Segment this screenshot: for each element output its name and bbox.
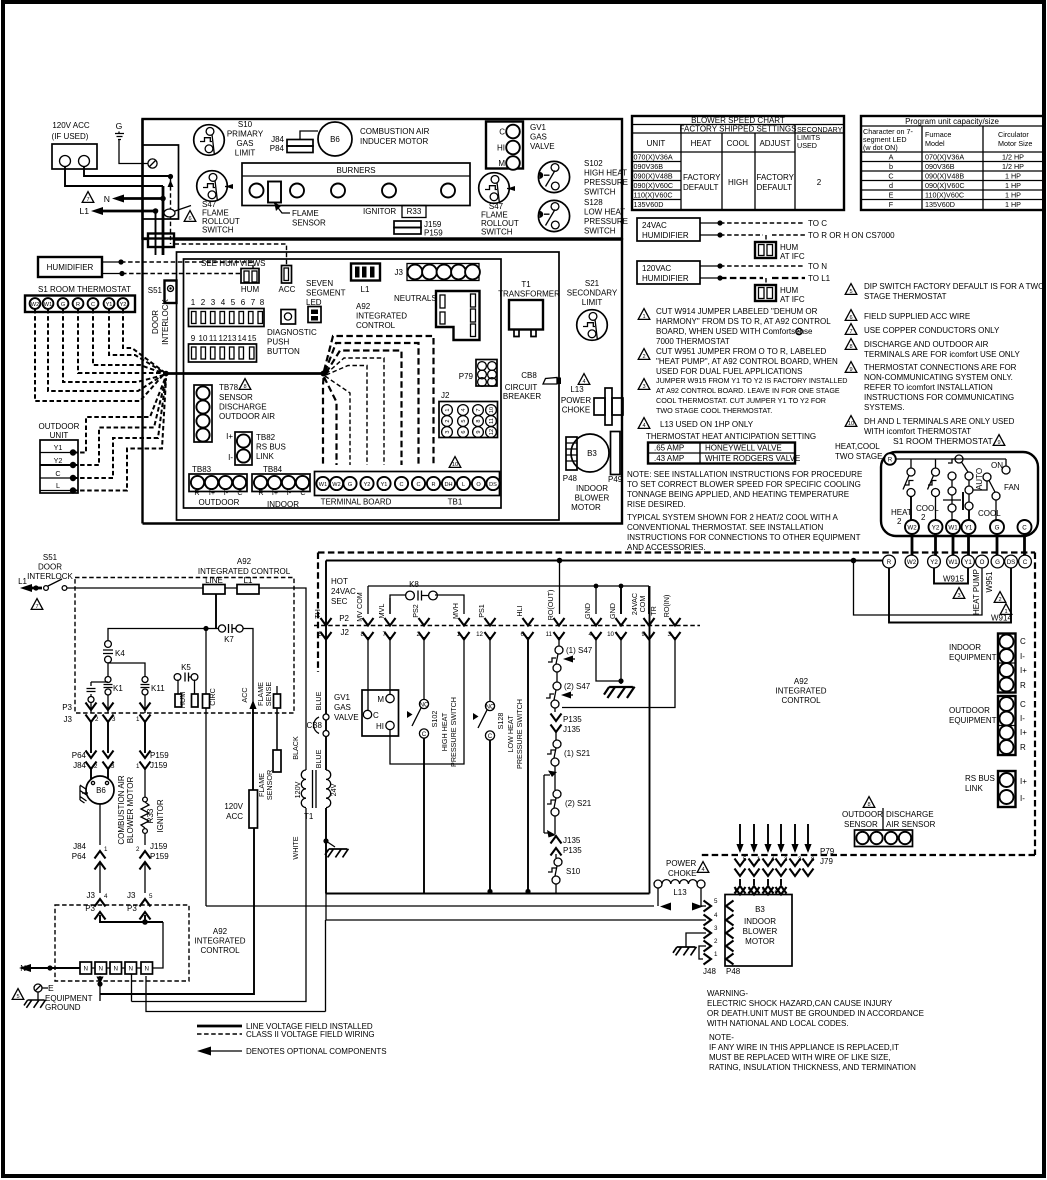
S10 primary gas limit xyxy=(194,120,264,158)
svg-text:I-: I- xyxy=(224,488,229,497)
svg-text:CLASS II VOLTAGE FIELD WIRING: CLASS II VOLTAGE FIELD WIRING xyxy=(246,1030,375,1039)
svg-text:2: 2 xyxy=(897,517,902,526)
svg-text:FIELD SUPPLIED ACC WIRE: FIELD SUPPLIED ACC WIRE xyxy=(864,312,970,321)
svg-text:HIGH: HIGH xyxy=(728,178,748,187)
box4 inner A92 xyxy=(184,259,502,508)
S128 low heat pressure switch xyxy=(538,198,628,236)
svg-text:FACTORY: FACTORY xyxy=(757,173,795,182)
svg-text:TB83: TB83 xyxy=(192,465,212,474)
svg-text:K7: K7 xyxy=(224,635,234,644)
GND wires to chassis ground xyxy=(596,637,621,684)
svg-text:A92: A92 xyxy=(213,927,228,936)
svg-text:ACC: ACC xyxy=(226,812,243,821)
svg-text:K1: K1 xyxy=(113,684,123,693)
svg-text:110(X)V60C: 110(X)V60C xyxy=(634,191,673,200)
svg-text:3: 3 xyxy=(112,716,116,723)
svg-text:P159: P159 xyxy=(150,751,169,760)
svg-text:J159: J159 xyxy=(150,761,168,770)
svg-text:C: C xyxy=(888,172,893,181)
thermostat dashed wires to fan point xyxy=(35,309,164,401)
svg-text:HI: HI xyxy=(497,144,505,153)
pin RO(IN) xyxy=(662,595,681,640)
svg-text:R: R xyxy=(258,488,263,497)
svg-text:I-: I- xyxy=(1020,794,1025,803)
svg-text:AIR SENSOR: AIR SENSOR xyxy=(886,820,936,829)
K5 right drop xyxy=(194,680,196,695)
svg-text:3: 3 xyxy=(111,763,115,770)
svg-text:BLOWER MOTOR: BLOWER MOTOR xyxy=(126,777,135,844)
T1 transformer (ladder) xyxy=(132,592,339,1002)
ground G xyxy=(115,121,124,140)
NEUTRALS connector xyxy=(394,291,480,340)
S102 C wire down to rail xyxy=(423,738,425,894)
svg-text:UNIT: UNIT xyxy=(50,431,69,440)
warning triangle 9 xyxy=(993,435,1005,446)
svg-text:DOOR: DOOR xyxy=(38,563,62,572)
thermostat bottom terminals xyxy=(905,520,1032,534)
svg-text:TB78: TB78 xyxy=(219,383,239,392)
24VAC R line to thermostat xyxy=(326,560,884,562)
svg-text:AUTO: AUTO xyxy=(975,468,984,490)
svg-text:OUTDOOR: OUTDOOR xyxy=(199,498,240,507)
junction dot xyxy=(168,174,173,179)
svg-text:W2: W2 xyxy=(907,525,917,532)
svg-text:120V: 120V xyxy=(293,781,302,798)
svg-text:TH: TH xyxy=(313,609,322,619)
svg-text:13: 13 xyxy=(228,334,237,343)
svg-text:C: C xyxy=(55,469,60,478)
S102 pressure switch (ladder) xyxy=(407,697,458,767)
svg-text:N: N xyxy=(83,966,87,973)
svg-text:CHOKE: CHOKE xyxy=(668,869,696,878)
svg-text:FAN: FAN xyxy=(1004,483,1020,492)
svg-text:1: 1 xyxy=(136,716,140,723)
svg-text:4: 4 xyxy=(461,408,467,411)
svg-text:COOL: COOL xyxy=(727,139,750,148)
S47 flame rollout switch left xyxy=(197,171,240,235)
svg-text:B3: B3 xyxy=(755,905,765,914)
svg-text:SEVEN: SEVEN xyxy=(306,279,333,288)
svg-text:2: 2 xyxy=(94,763,98,770)
svg-text:C: C xyxy=(91,302,95,308)
svg-text:1: 1 xyxy=(757,856,761,863)
svg-text:C: C xyxy=(1020,700,1026,709)
svg-text:4: 4 xyxy=(775,888,779,895)
svg-text:GND: GND xyxy=(608,603,617,619)
svg-text:8: 8 xyxy=(243,384,246,390)
svg-text:HLI: HLI xyxy=(515,605,524,616)
svg-text:8: 8 xyxy=(361,631,365,638)
K11 contact xyxy=(141,677,166,714)
svg-text:1 HP: 1 HP xyxy=(1005,172,1021,181)
HOT 24VAC SEC label xyxy=(331,577,356,606)
svg-text:3: 3 xyxy=(798,856,802,863)
svg-text:IF ANY WIRE IN THIS APPLIANCE: IF ANY WIRE IN THIS APPLIANCE IS REPLACE… xyxy=(709,1043,899,1052)
T1 transformer top xyxy=(498,280,560,337)
J3/P3 lower connectors xyxy=(85,891,153,920)
svg-text:Y1: Y1 xyxy=(964,559,972,566)
svg-text:5: 5 xyxy=(461,419,467,422)
legend xyxy=(197,1022,387,1056)
svg-text:4: 4 xyxy=(771,856,775,863)
svg-text:9: 9 xyxy=(476,430,482,433)
svg-text:TO R OR H ON CS7000: TO R OR H ON CS7000 xyxy=(808,231,895,240)
svg-text:M: M xyxy=(377,695,384,704)
wire K7 to ACC xyxy=(243,629,253,714)
svg-text:"HEAT PUMP", AT A92 CONTROL BO: "HEAT PUMP", AT A92 CONTROL BOARD, WHEN xyxy=(656,357,838,366)
svg-text:CIRC: CIRC xyxy=(208,688,217,706)
svg-text:PRESSURE: PRESSURE xyxy=(584,178,628,187)
svg-text:090(X)V48B: 090(X)V48B xyxy=(634,172,673,181)
svg-text:NOTE: SEE INSTALLATION INSTRUC: NOTE: SEE INSTALLATION INSTRUCTIONS FOR … xyxy=(627,470,862,479)
OUTDOOR EQUIPMENT connector xyxy=(949,696,1027,755)
svg-text:3: 3 xyxy=(957,593,960,599)
svg-text:J135: J135 xyxy=(563,725,581,734)
A92 dashed box (mid-left) xyxy=(75,557,294,713)
screw terminal xyxy=(148,159,157,168)
S128 pressure switch (ladder) xyxy=(473,699,524,769)
svg-text:S128: S128 xyxy=(496,713,505,730)
svg-text:HIGH HEAT: HIGH HEAT xyxy=(584,169,627,178)
svg-text:10: 10 xyxy=(199,334,208,343)
K5 contact xyxy=(174,663,198,682)
svg-text:1: 1 xyxy=(104,846,108,853)
wires into N boxes xyxy=(100,915,163,922)
svg-text:3: 3 xyxy=(668,631,672,638)
svg-text:P135: P135 xyxy=(563,715,582,724)
svg-text:1: 1 xyxy=(734,888,738,895)
lower terminal strip on dashed line xyxy=(883,555,1032,568)
svg-text:Furnace: Furnace xyxy=(925,130,951,139)
svg-text:J3: J3 xyxy=(64,715,73,724)
warning triangle 6 xyxy=(184,211,196,222)
svg-text:9: 9 xyxy=(642,631,646,638)
svg-text:COOL THERMOSTAT. CUT JUMPER Y1: COOL THERMOSTAT. CUT JUMPER Y1 TO Y2 FOR xyxy=(656,396,826,405)
svg-text:I+: I+ xyxy=(226,432,233,441)
svg-text:E: E xyxy=(48,983,54,993)
svg-text:HARMONY" FROM DS TO R, AT A92: HARMONY" FROM DS TO R, AT A92 CONTROL xyxy=(656,317,831,326)
svg-text:L1: L1 xyxy=(18,577,27,586)
svg-text:DH AND L TERMINALS ARE ONLY US: DH AND L TERMINALS ARE ONLY USED xyxy=(864,417,1015,426)
svg-text:6: 6 xyxy=(849,315,852,321)
svg-text:THERMOSTAT CONNECTIONS ARE FOR: THERMOSTAT CONNECTIONS ARE FOR xyxy=(864,363,1017,372)
svg-text:2: 2 xyxy=(748,888,752,895)
outdoor unit dashed wires xyxy=(73,376,166,453)
svg-text:INDOOR: INDOOR xyxy=(949,643,981,652)
svg-text:W1: W1 xyxy=(948,559,958,566)
svg-text:2: 2 xyxy=(95,716,99,723)
svg-text:J3: J3 xyxy=(87,891,96,900)
INDOOR EQUIPMENT connector xyxy=(949,634,1027,693)
svg-text:S128: S128 xyxy=(584,198,603,207)
svg-text:DISCHARGE: DISCHARGE xyxy=(219,403,267,412)
safety chain: (1) S47 xyxy=(548,637,593,672)
wire N vertical xyxy=(162,186,165,255)
svg-text:JUMPER W915 FROM Y1 TO Y2 IS F: JUMPER W915 FROM Y1 TO Y2 IS FACTORY INS… xyxy=(656,376,847,385)
svg-text:Y2: Y2 xyxy=(932,525,940,532)
svg-text:F: F xyxy=(889,200,894,209)
svg-text:(1) S47: (1) S47 xyxy=(566,646,593,655)
svg-text:HI: HI xyxy=(376,722,384,731)
wire through fuses xyxy=(225,588,306,592)
HLI wire to rail xyxy=(527,637,529,894)
pin 24VAC COM / TR xyxy=(630,586,658,640)
svg-text:14: 14 xyxy=(238,334,247,343)
neutral N boxes xyxy=(80,962,153,974)
svg-text:N: N xyxy=(128,966,132,973)
svg-text:RO(OUT): RO(OUT) xyxy=(546,590,555,621)
seven segment LED xyxy=(306,279,346,323)
svg-text:J3: J3 xyxy=(127,891,136,900)
TB82 RS BUS LINK xyxy=(226,432,286,465)
svg-text:2: 2 xyxy=(998,597,1001,603)
svg-text:SWITCH: SWITCH xyxy=(481,228,513,237)
svg-text:B3: B3 xyxy=(587,449,597,458)
svg-text:I+: I+ xyxy=(272,488,278,497)
svg-text:B6: B6 xyxy=(330,135,340,144)
warning triangle 3 xyxy=(953,588,965,599)
GV1 gas valve (ladder) xyxy=(334,690,399,736)
B3 left pins xyxy=(704,898,734,965)
J135/P135 connector xyxy=(551,816,583,856)
svg-text:COM: COM xyxy=(638,596,647,613)
NOTE paragraph xyxy=(627,470,862,509)
R33 ignitor resistor xyxy=(141,769,165,845)
svg-text:Y1: Y1 xyxy=(381,482,388,488)
svg-text:DH: DH xyxy=(444,482,452,488)
TB84 indoor xyxy=(252,465,310,509)
svg-text:2: 2 xyxy=(642,354,645,360)
svg-text:9: 9 xyxy=(849,367,852,373)
svg-text:Program unit capacity/size: Program unit capacity/size xyxy=(905,117,999,126)
svg-text:L: L xyxy=(56,481,60,490)
B3 indoor blower motor box xyxy=(725,895,792,967)
J84/P64 lower connectors xyxy=(72,842,108,870)
svg-text:DEFAULT: DEFAULT xyxy=(683,183,719,192)
svg-text:SEE HUM VIEWS: SEE HUM VIEWS xyxy=(201,259,265,268)
svg-text:REFER TO icomfort INSTALLATION: REFER TO icomfort INSTALLATION xyxy=(864,383,993,392)
svg-text:TO N: TO N xyxy=(808,262,827,271)
svg-text:5: 5 xyxy=(849,289,852,295)
svg-text:INTERLOCK: INTERLOCK xyxy=(161,298,170,344)
svg-text:GND: GND xyxy=(583,603,592,619)
neutral return to line B xyxy=(146,920,326,1012)
svg-text:W1: W1 xyxy=(44,302,52,308)
svg-text:SENSOR: SENSOR xyxy=(844,820,878,829)
note triangle 2 xyxy=(638,349,650,360)
svg-text:C: C xyxy=(499,128,505,137)
svg-text:070(X)V36A: 070(X)V36A xyxy=(634,153,673,162)
A92 label bottom xyxy=(195,927,246,955)
svg-text:HUM: HUM xyxy=(780,286,799,295)
CIRC output xyxy=(203,629,218,907)
svg-text:CB8: CB8 xyxy=(521,371,537,380)
(1) S21 xyxy=(547,731,591,766)
note triangle 1 xyxy=(638,309,650,320)
svg-text:P64: P64 xyxy=(72,751,87,760)
svg-text:10: 10 xyxy=(452,462,458,468)
S10 contact xyxy=(548,854,581,894)
svg-text:A92: A92 xyxy=(356,302,371,311)
svg-text:OUTDOOR: OUTDOOR xyxy=(842,810,883,819)
warning triangle 7 xyxy=(82,192,94,203)
svg-text:1: 1 xyxy=(457,631,461,638)
svg-text:L13: L13 xyxy=(570,385,584,394)
note triangle 4 xyxy=(638,418,650,429)
diagnostic push button xyxy=(267,310,317,357)
ignitor label + R33 box xyxy=(363,206,426,218)
neutral junction arrow below boxes xyxy=(96,977,103,985)
svg-text:G: G xyxy=(61,302,65,308)
svg-text:P79: P79 xyxy=(820,847,835,856)
svg-text:ACC: ACC xyxy=(240,687,249,702)
svg-text:G: G xyxy=(995,525,1000,532)
flame sensor rect on burner xyxy=(268,182,326,228)
svg-text:WHITE: WHITE xyxy=(291,836,300,859)
svg-text:TYPICAL SYSTEM SHOWN FOR 2 HEA: TYPICAL SYSTEM SHOWN FOR 2 HEAT/2 COOL W… xyxy=(627,513,839,522)
svg-text:USED: USED xyxy=(797,141,817,150)
svg-text:P3: P3 xyxy=(62,703,72,712)
svg-text:7: 7 xyxy=(35,604,38,610)
junction dot on R line xyxy=(851,558,857,564)
svg-text:N: N xyxy=(98,966,102,973)
svg-text:GV1: GV1 xyxy=(530,123,547,132)
svg-text:A92: A92 xyxy=(794,677,809,686)
svg-text:120V ACC: 120V ACC xyxy=(52,121,90,130)
svg-text:5: 5 xyxy=(231,298,236,307)
svg-text:2: 2 xyxy=(817,178,822,187)
svg-text:P135: P135 xyxy=(563,846,582,855)
svg-text:S10: S10 xyxy=(566,867,581,876)
svg-text:I-: I- xyxy=(287,488,292,497)
fan auto switch xyxy=(973,461,1020,521)
svg-text:C: C xyxy=(488,733,493,740)
svg-text:DISCHARGE AND OUTDOOR AIR: DISCHARGE AND OUTDOOR AIR xyxy=(864,340,989,349)
svg-text:SENSOR: SENSOR xyxy=(219,393,253,402)
svg-text:Y2: Y2 xyxy=(120,302,127,308)
anticipation table xyxy=(646,432,816,464)
thermostat wires down to lower strip xyxy=(912,534,1025,556)
note triangle 3 xyxy=(638,379,650,390)
svg-text:HUMIDIFIER: HUMIDIFIER xyxy=(642,231,689,240)
MV COM wire to C xyxy=(367,637,369,711)
svg-text:DS: DS xyxy=(489,482,497,488)
svg-text:K4: K4 xyxy=(115,649,125,658)
svg-text:TONNAGE BEING APPLIED, AND HEA: TONNAGE BEING APPLIED, AND HEATING TEMPE… xyxy=(627,490,849,499)
svg-text:1/2 HP: 1/2 HP xyxy=(1002,162,1024,171)
P79 connector xyxy=(459,360,497,387)
svg-text:8: 8 xyxy=(476,419,482,422)
svg-text:OUTDOOR: OUTDOOR xyxy=(39,422,80,431)
warning triangle 8 (sensors) xyxy=(863,797,875,808)
svg-text:HONEYWELL VALVE: HONEYWELL VALVE xyxy=(705,444,782,453)
svg-text:5: 5 xyxy=(149,893,153,900)
svg-text:S51: S51 xyxy=(43,553,58,562)
N node arrow xyxy=(19,964,80,973)
svg-text:Y1: Y1 xyxy=(54,443,63,452)
svg-text:HEAT,COOL: HEAT,COOL xyxy=(835,442,880,451)
svg-text:24VAC: 24VAC xyxy=(331,587,356,596)
svg-text:O: O xyxy=(980,559,985,566)
svg-text:b: b xyxy=(889,162,893,171)
svg-text:MOTOR: MOTOR xyxy=(745,937,775,946)
L1 connector xyxy=(351,264,380,295)
svg-text:TWO STAGE: TWO STAGE xyxy=(835,452,882,461)
line A to power choke xyxy=(206,905,654,907)
labels heat/cool xyxy=(891,504,1001,526)
svg-text:COMBUSTION AIR: COMBUSTION AIR xyxy=(360,127,430,136)
fan-out dashed bundle to terminal board xyxy=(324,336,434,465)
svg-text:L13: L13 xyxy=(673,888,687,897)
pin MVH xyxy=(451,603,470,639)
svg-text:L: L xyxy=(462,482,465,488)
pin TH xyxy=(313,609,332,639)
svg-text:P48: P48 xyxy=(726,967,741,976)
svg-text:EQUIPMENT: EQUIPMENT xyxy=(949,653,997,662)
svg-text:HUMIDIFIER: HUMIDIFIER xyxy=(642,274,689,283)
svg-text:A92: A92 xyxy=(237,557,252,566)
svg-text:GROUND: GROUND xyxy=(45,1003,81,1012)
svg-text:120VAC: 120VAC xyxy=(642,264,671,273)
svg-text:N: N xyxy=(113,966,117,973)
box2 outer xyxy=(143,119,623,524)
svg-text:CONTROL: CONTROL xyxy=(356,321,396,330)
(2) S47 xyxy=(546,672,591,708)
svg-text:P49: P49 xyxy=(608,475,623,484)
svg-text:RISE DESIRED.: RISE DESIRED. xyxy=(627,500,686,509)
svg-text:S1 ROOM THERMOSTAT: S1 ROOM THERMOSTAT xyxy=(893,436,994,446)
svg-text:J48: J48 xyxy=(703,967,716,976)
svg-text:S51: S51 xyxy=(148,286,163,295)
svg-text:1: 1 xyxy=(714,951,718,958)
pin3 ground wire xyxy=(686,933,706,947)
pin GND 4 xyxy=(583,586,602,640)
svg-text:110(X)V60C: 110(X)V60C xyxy=(925,191,964,200)
svg-text:TO L1: TO L1 xyxy=(808,274,831,283)
J48 plug pins 1-2 xyxy=(699,946,741,976)
svg-text:4: 4 xyxy=(714,912,718,919)
svg-text:TO SET CORRECT BLOWER SPEED FO: TO SET CORRECT BLOWER SPEED FOR SPECIFIC… xyxy=(627,480,861,489)
wires down to J3/P3 xyxy=(100,864,145,893)
svg-text:W2: W2 xyxy=(332,482,340,488)
svg-text:(2) S21: (2) S21 xyxy=(565,799,592,808)
svg-text:COOL: COOL xyxy=(916,504,939,513)
svg-text:9: 9 xyxy=(997,440,1000,446)
svg-text:I-: I- xyxy=(1020,714,1025,723)
svg-text:LINK: LINK xyxy=(965,784,983,793)
GV1 gas valve top xyxy=(486,122,555,170)
warning triangle 7 xyxy=(31,599,43,610)
svg-text:J84: J84 xyxy=(73,842,86,851)
svg-text:P48: P48 xyxy=(563,474,578,483)
svg-text:1 HP: 1 HP xyxy=(1005,181,1021,190)
svg-text:P159: P159 xyxy=(424,229,443,238)
svg-text:MV COM: MV COM xyxy=(355,592,364,622)
svg-text:W1: W1 xyxy=(948,525,958,532)
pin PS1 xyxy=(476,604,495,639)
pin MVL xyxy=(377,598,396,640)
S51 door interlock xyxy=(18,553,203,592)
wires down to motor connectors xyxy=(91,722,145,753)
svg-text:W2: W2 xyxy=(907,559,917,566)
svg-text:BLACK: BLACK xyxy=(291,736,300,760)
svg-text:7: 7 xyxy=(86,197,89,203)
svg-text:8: 8 xyxy=(867,802,870,808)
svg-text:4: 4 xyxy=(642,423,645,429)
svg-text:PRIMARY: PRIMARY xyxy=(227,130,264,139)
pin GND 10 xyxy=(607,586,626,640)
junction box on left edge xyxy=(148,234,174,248)
